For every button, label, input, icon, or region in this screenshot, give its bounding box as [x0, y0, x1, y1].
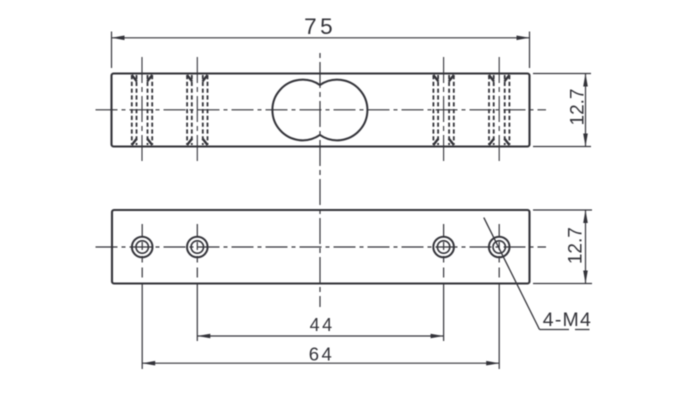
tapped hole H3 side view [433, 57, 453, 161]
bottom view body outline [112, 210, 530, 284]
svg-text:64: 64 [309, 343, 335, 364]
svg-text:4-M4: 4-M4 [543, 309, 592, 331]
svg-text:75: 75 [304, 14, 336, 39]
main vertical centerline [319, 50, 321, 307]
tapped hole H1 side view [132, 57, 152, 161]
tapped hole H4 side view [489, 57, 509, 161]
hole B4 [489, 224, 510, 280]
svg-text:12.7: 12.7 [567, 89, 588, 126]
svg-text:44: 44 [310, 315, 335, 335]
dimension 44 [197, 284, 443, 341]
leader line 4-M4 [484, 218, 592, 331]
peanut-shaped cutout [272, 80, 367, 141]
top view horizontal centerline [96, 109, 547, 111]
top view body outline [112, 74, 530, 147]
hole B2 [187, 224, 208, 280]
svg-text:12.7: 12.7 [565, 227, 586, 264]
dimension 12.7 top view [533, 74, 591, 147]
tapped hole H2 side view [187, 57, 207, 161]
dimension 75 [112, 14, 530, 68]
dimension 64 [142, 284, 499, 369]
hole B1 [132, 224, 153, 280]
hole B3 [433, 224, 454, 280]
dimension 12.7 bottom view [533, 210, 592, 284]
bottom view horizontal centerline [96, 246, 547, 248]
